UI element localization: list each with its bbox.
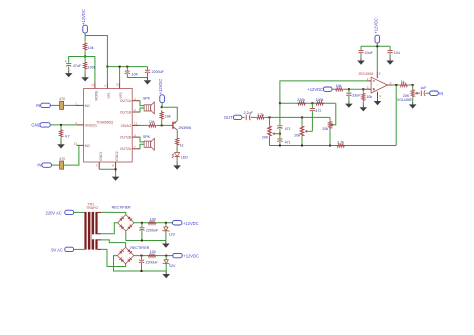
capacitor 33uF bbox=[346, 89, 361, 101]
wire OUT2B to SPK2 bbox=[140, 137, 145, 142]
node zener2 bbox=[165, 255, 167, 257]
pin 13 IN2 bbox=[74, 142, 90, 148]
resistor 100k (tone) bbox=[315, 98, 324, 105]
capacitor 2200uF (VP) bbox=[145, 67, 165, 78]
ground (PSU1) bbox=[162, 241, 170, 248]
pin 10 VP2 bbox=[115, 82, 123, 98]
wire bridge2 minus to ground rail bbox=[114, 256, 167, 271]
node 472 top bbox=[311, 102, 313, 104]
svg-text:GND: GND bbox=[31, 123, 40, 128]
rectifier bridge 1 bbox=[112, 206, 134, 231]
pin 2 GND(S) bbox=[75, 121, 96, 127]
wire OUT2A to SPK2 bbox=[140, 144, 145, 149]
svg-text:100: 100 bbox=[150, 217, 156, 221]
capacitor 471 (top) bbox=[277, 103, 290, 134]
node 104 cap bbox=[126, 66, 128, 68]
svg-text:1uF: 1uF bbox=[420, 86, 427, 90]
pin 1 IN1 bbox=[75, 102, 90, 108]
wire IN2 to R470 bbox=[52, 164, 60, 166]
wire VP2 drop bbox=[119, 67, 121, 83]
svg-text:OUT: OUT bbox=[224, 115, 233, 120]
svg-text:2.2uF: 2.2uF bbox=[244, 111, 254, 115]
pin 4 OUT1A bbox=[120, 97, 140, 103]
capacitor 472 bbox=[310, 103, 322, 131]
svg-text:GND2: GND2 bbox=[115, 151, 119, 161]
wire bridge1 minus to ground rail bbox=[126, 231, 166, 241]
resistor 220k bbox=[297, 98, 306, 105]
speaker SPK1 bbox=[143, 96, 154, 114]
node GND bbox=[60, 124, 62, 126]
wire pin2 loop (top left corner) bbox=[280, 81, 367, 103]
potentiometer 20K (bass) bbox=[262, 117, 271, 145]
svg-text:104: 104 bbox=[132, 72, 138, 76]
wire 220V to primary bbox=[74, 211, 85, 213]
svg-text:33uF: 33uF bbox=[352, 94, 361, 98]
zener diode 12V (PSU1) bbox=[162, 223, 175, 241]
node 33uF bbox=[348, 88, 350, 90]
svg-text:1k: 1k bbox=[401, 80, 405, 84]
wire lower rail bbox=[127, 77, 147, 79]
supply +12VDC (bias) bbox=[307, 87, 332, 92]
capacitor 2200uF (PSU2) bbox=[139, 256, 159, 272]
svg-text:2.7k: 2.7k bbox=[257, 113, 264, 117]
resistor 10k (pull-up) bbox=[160, 110, 171, 125]
pin 12 VDIAG bbox=[121, 122, 140, 128]
IC U1 TDA8560Q body bbox=[84, 89, 133, 163]
ground (10uF) bbox=[357, 58, 365, 65]
svg-text:20k: 20k bbox=[294, 133, 300, 137]
svg-text:+: + bbox=[65, 60, 67, 64]
capacitor 104 bbox=[125, 67, 138, 78]
port OUT (preamp input) bbox=[224, 115, 242, 120]
wire junction to pot1 wiper bbox=[275, 133, 280, 135]
svg-text:+12VDC: +12VDC bbox=[374, 18, 379, 34]
svg-text:9V AC: 9V AC bbox=[51, 247, 63, 252]
pin 9 OUT2B bbox=[120, 133, 140, 139]
speaker SPK2 bbox=[143, 135, 154, 150]
wire T2 to bridge1 left bbox=[101, 223, 117, 234]
svg-text:OUT2A: OUT2A bbox=[120, 147, 132, 151]
node pot1 top bbox=[269, 116, 271, 118]
svg-text:TDA8560Q: TDA8560Q bbox=[96, 121, 113, 125]
pin 5 GND1 bbox=[96, 151, 103, 169]
wire output node bbox=[393, 84, 400, 86]
svg-text:IN2: IN2 bbox=[85, 144, 90, 148]
svg-text:RECTIFIER: RECTIFIER bbox=[130, 246, 149, 250]
wire bias to pin3 bbox=[344, 88, 367, 90]
op-amp U2 JRC4558 bbox=[358, 72, 387, 93]
svg-text:GND(S): GND(S) bbox=[85, 123, 97, 127]
wire R470 to pin13 bbox=[64, 145, 79, 165]
wire VP1 drop bbox=[106, 67, 108, 83]
wire 9V to primary bbox=[74, 248, 85, 250]
diode LED bbox=[172, 153, 188, 160]
svg-text:20k: 20k bbox=[322, 127, 328, 131]
svg-text:VP1: VP1 bbox=[107, 92, 111, 99]
svg-text:11: 11 bbox=[91, 83, 95, 86]
wire IN to R470 bbox=[50, 104, 59, 106]
resistor 10k (bias) bbox=[332, 84, 344, 91]
node A (85,56.5) bbox=[84, 56, 86, 58]
resistor 2.7k (input) bbox=[251, 113, 266, 119]
pin 4 stub bbox=[378, 92, 382, 99]
resistor 1k (output) bbox=[399, 80, 408, 87]
supply +12VDC (top) bbox=[81, 9, 87, 33]
ground (VP caps) bbox=[144, 78, 152, 85]
transistor Q1 2N3906 bbox=[173, 121, 191, 130]
svg-text:+12VDC: +12VDC bbox=[81, 9, 86, 25]
svg-text:2200uF: 2200uF bbox=[146, 261, 159, 265]
svg-text:2200uF: 2200uF bbox=[152, 70, 165, 74]
resistor 10k (VDIAG series) bbox=[140, 120, 157, 127]
resistor 100k bbox=[83, 57, 95, 71]
svg-text:471: 471 bbox=[285, 127, 291, 131]
node supply rail bbox=[376, 45, 378, 47]
resistor 10k (from +12VDC) bbox=[83, 42, 93, 51]
pin 2 stub bbox=[367, 77, 372, 81]
potentiometer 20K VOLUME bbox=[397, 85, 415, 102]
svg-text:OUT1B: OUT1B bbox=[120, 110, 132, 114]
resistor 100 (PSU2) bbox=[147, 250, 156, 257]
wire OUT1B to SPK1 bbox=[140, 108, 145, 112]
node volume top bbox=[412, 84, 414, 86]
pin 3 VP1 bbox=[103, 82, 111, 98]
svg-text:100k: 100k bbox=[316, 98, 324, 102]
wire to base node bbox=[157, 124, 172, 126]
wire 1k to pot bbox=[408, 84, 412, 86]
port +12VDC (PSU2) bbox=[173, 253, 199, 258]
svg-text:10: 10 bbox=[115, 83, 119, 87]
wire T3 to bridge2 top bbox=[101, 240, 125, 248]
node IC ground bbox=[115, 168, 117, 170]
wire middle bus bbox=[265, 116, 330, 118]
port IN (channel 2) bbox=[37, 163, 51, 168]
wire supply to node bbox=[161, 103, 163, 108]
wire tone top bus bbox=[280, 102, 336, 104]
resistor 1k (LED) bbox=[175, 137, 183, 147]
wiper junction pot1 bbox=[279, 133, 281, 135]
resistor 4.7 bbox=[59, 125, 69, 138]
port 220V AC bbox=[46, 210, 74, 215]
ground (100k) bbox=[81, 70, 89, 81]
pin 1 output stub bbox=[387, 81, 392, 85]
wire feedback drop bbox=[395, 85, 397, 146]
svg-text:12: 12 bbox=[134, 122, 138, 126]
svg-text:10k: 10k bbox=[149, 120, 155, 124]
svg-text:470: 470 bbox=[59, 97, 65, 101]
svg-text:10k: 10k bbox=[165, 115, 171, 119]
svg-text:4.7: 4.7 bbox=[65, 134, 70, 138]
node VP2 bbox=[119, 66, 121, 68]
ground (divider) bbox=[360, 102, 368, 112]
ground (33uF) bbox=[345, 101, 353, 108]
wiper arrow volume bbox=[415, 92, 420, 95]
svg-text:GND1: GND1 bbox=[99, 151, 103, 161]
node base (161.7,125.4) bbox=[161, 124, 163, 126]
node zener1 bbox=[165, 222, 167, 224]
wire bottom bus bbox=[270, 145, 397, 147]
supply +12VDC (op-amp) bbox=[374, 18, 380, 43]
svg-text:12V: 12V bbox=[169, 233, 176, 237]
svg-text:RECTIFIER: RECTIFIER bbox=[112, 206, 131, 210]
transformer TR1 TRAFO bbox=[84, 203, 101, 250]
svg-text:220V AC: 220V AC bbox=[46, 210, 62, 215]
svg-text:MODE: MODE bbox=[94, 90, 98, 101]
wire T1 to bridge1 top bbox=[101, 212, 126, 214]
svg-text:+12VDC: +12VDC bbox=[307, 87, 323, 92]
svg-text:OUT2B: OUT2B bbox=[120, 136, 132, 140]
svg-text:IN1: IN1 bbox=[85, 104, 90, 108]
svg-text:100: 100 bbox=[150, 250, 156, 254]
capacitor 2200uF (PSU1) bbox=[139, 223, 159, 242]
pin 8 stub bbox=[377, 71, 380, 78]
svg-text:VP2: VP2 bbox=[119, 92, 123, 99]
node pot2 bottom bbox=[301, 145, 303, 147]
pin 3 stub bbox=[367, 85, 372, 89]
wire GND to pin2 bbox=[50, 124, 76, 126]
resistor 100 (PSU1) bbox=[147, 217, 156, 224]
svg-text:IN: IN bbox=[439, 91, 443, 96]
wire node to emitter bbox=[162, 107, 178, 120]
node cap2 bbox=[141, 255, 143, 257]
svg-text:10k: 10k bbox=[88, 46, 94, 50]
svg-text:JRC4558: JRC4558 bbox=[358, 72, 373, 76]
wire supply rail bbox=[361, 43, 390, 71]
svg-text:IN: IN bbox=[36, 103, 40, 108]
svg-text:+12VDC: +12VDC bbox=[183, 221, 199, 226]
port GND bbox=[31, 123, 50, 128]
resistor 10k (divider low) bbox=[362, 89, 373, 101]
node 471 bottom bbox=[279, 145, 281, 147]
svg-text:2N3906: 2N3906 bbox=[179, 126, 192, 130]
potentiometer 20k (mid) bbox=[294, 117, 303, 145]
svg-text:104: 104 bbox=[394, 51, 400, 55]
svg-text:IN: IN bbox=[37, 163, 41, 168]
port IN (preamp out) bbox=[430, 91, 444, 96]
capacitor 1uF bbox=[420, 86, 429, 96]
resistor 470 (ch2) bbox=[59, 157, 65, 169]
pin 7 OUT2A bbox=[120, 145, 140, 151]
svg-text:LED: LED bbox=[181, 155, 188, 159]
node top bus left bbox=[279, 102, 281, 104]
potentiometer 20k (treble) bbox=[322, 117, 331, 145]
svg-text:+12VDC: +12VDC bbox=[183, 254, 199, 259]
node cap1 bbox=[141, 222, 143, 224]
node output bbox=[395, 84, 397, 86]
wiper arrow pot2 bbox=[305, 130, 308, 133]
wire node to MODE pin bbox=[85, 57, 95, 83]
wire T4 to bridge2 bottom bbox=[101, 249, 125, 266]
wire GND1-GND2 join bbox=[99, 169, 115, 176]
node pot3 bottom bbox=[329, 145, 331, 147]
wire bridge2 plus to output rail bbox=[134, 255, 173, 257]
ground (IC) bbox=[112, 177, 120, 181]
wire 10k to node bbox=[84, 51, 86, 56]
ground (op-amp) bbox=[374, 98, 382, 105]
capacitor 47uF bbox=[65, 60, 82, 68]
wiper arrow pot1 bbox=[272, 132, 275, 135]
wire supply to R 10k bbox=[84, 33, 86, 42]
wire collector down bbox=[176, 130, 178, 137]
svg-text:2200uF: 2200uF bbox=[146, 228, 159, 232]
svg-text:10k: 10k bbox=[366, 95, 372, 99]
rectifier bridge 2 bbox=[117, 246, 149, 264]
svg-text:SPK: SPK bbox=[143, 135, 151, 139]
supply +12VDC (transistor) bbox=[158, 79, 164, 103]
svg-text:20K: 20K bbox=[262, 136, 269, 140]
port 9V AC bbox=[51, 247, 73, 252]
wire node to 47uF bbox=[69, 57, 85, 63]
resistor 470 (ch1) bbox=[59, 97, 65, 109]
pin 6 OUT1B bbox=[120, 108, 140, 114]
pin 11 MODE bbox=[91, 82, 99, 101]
svg-text:10uF: 10uF bbox=[365, 51, 374, 55]
svg-text:OUT1A: OUT1A bbox=[120, 99, 132, 103]
capacitor 10uF (rail) bbox=[358, 46, 373, 57]
node 10k divider bbox=[362, 88, 364, 90]
svg-text:VOLUME: VOLUME bbox=[397, 98, 413, 102]
svg-text:12V: 12V bbox=[169, 264, 176, 268]
node emitter feed bbox=[161, 106, 163, 108]
ground (47uF) bbox=[65, 66, 73, 77]
node pot2 top bbox=[301, 116, 303, 118]
wire 472 to pot2 wiper bbox=[307, 130, 312, 132]
wire VP rail bbox=[107, 66, 147, 68]
svg-text:471: 471 bbox=[285, 140, 291, 144]
wire OUT1A to SPK1 bbox=[140, 101, 145, 106]
wire supply branch to VP rail bbox=[85, 36, 107, 67]
zener diode 12V (PSU2) bbox=[163, 256, 176, 271]
resistor 2.7k (feedback) bbox=[336, 141, 345, 148]
wire R470 to pin1 bbox=[64, 104, 77, 106]
svg-text:47uF: 47uF bbox=[73, 64, 82, 68]
ground (volume) bbox=[409, 102, 417, 109]
ground (104) bbox=[386, 58, 394, 65]
svg-text:220k: 220k bbox=[297, 98, 305, 102]
wire to LED bbox=[176, 146, 178, 152]
wire 100k to pot3 wiper bbox=[333, 103, 336, 125]
svg-text:VDIAG: VDIAG bbox=[121, 124, 132, 128]
capacitor 2.2uF bbox=[242, 111, 254, 120]
svg-text:+12VDC: +12VDC bbox=[158, 79, 163, 95]
svg-text:470: 470 bbox=[59, 157, 65, 161]
port +12VDC (PSU1) bbox=[173, 221, 199, 226]
svg-text:TRAFO: TRAFO bbox=[86, 206, 98, 210]
capacitor 104 (rail) bbox=[388, 46, 400, 57]
port IN (channel 1) bbox=[36, 103, 50, 108]
svg-text:472: 472 bbox=[315, 109, 321, 113]
capacitor 471 (bottom) bbox=[277, 134, 290, 146]
wire bridge1 plus to output rail bbox=[134, 222, 173, 224]
svg-text:10k: 10k bbox=[336, 84, 342, 88]
ground (PSU2) bbox=[162, 271, 170, 278]
svg-text:1k: 1k bbox=[180, 143, 184, 147]
svg-text:2.7k: 2.7k bbox=[337, 141, 344, 145]
node VP rail left bbox=[106, 66, 108, 68]
svg-text:SPK: SPK bbox=[143, 96, 151, 100]
ground (LED) bbox=[173, 157, 181, 170]
wiper arrow pot3 bbox=[330, 124, 333, 127]
ground (4.7) bbox=[57, 138, 65, 149]
pin 8 GND2 bbox=[112, 151, 119, 169]
